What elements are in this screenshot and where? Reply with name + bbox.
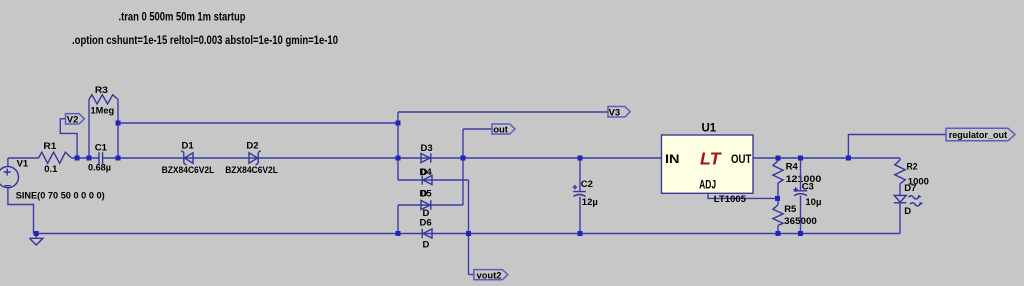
svg-text:R2: R2: [907, 161, 918, 172]
LED D7: [894, 183, 923, 233]
svg-text:LT1005: LT1005: [714, 194, 747, 205]
resistor R1: [39, 141, 72, 175]
zener diode D2: [225, 141, 278, 177]
svg-text:V1: V1: [17, 159, 29, 170]
svg-text:D5: D5: [420, 188, 433, 199]
svg-text:SINE(0 70 50 0 0 0 0): SINE(0 70 50 0 0 0 0): [16, 190, 105, 201]
svg-text:0.68µ: 0.68µ: [88, 163, 111, 174]
net flag V2: [60, 114, 84, 158]
svg-text:0.1: 0.1: [44, 164, 58, 175]
net flag V3: [398, 107, 630, 119]
wire V1 bottom path: [8, 188, 34, 234]
svg-text:IN: IN: [665, 154, 680, 166]
svg-text:out: out: [493, 124, 509, 135]
svg-text:R1: R1: [43, 141, 57, 152]
wire bridge right vertical vout2: [468, 180, 470, 275]
capacitor C3: [793, 158, 821, 234]
voltage source V1: [0, 159, 105, 202]
resistor R3: [89, 85, 118, 158]
wire R3 junction to bridge: [118, 122, 398, 124]
svg-text:C2: C2: [581, 179, 593, 190]
svg-text:V2: V2: [67, 115, 79, 126]
svg-text:.option cshunt=1e-15 reltol=0.: .option cshunt=1e-15 reltol=0.003 abstol…: [72, 33, 338, 47]
diode D6: [420, 218, 433, 251]
resistor R4: [773, 158, 821, 198]
svg-text:regulator_out: regulator_out: [949, 130, 1008, 141]
svg-text:D6: D6: [420, 218, 432, 229]
wire bridge right vertical out: [462, 129, 464, 205]
svg-text:R4: R4: [786, 161, 799, 172]
svg-text:D: D: [423, 239, 430, 250]
capacitor C1: [88, 142, 111, 173]
svg-text:.tran 0 500m 50m 1m startup: .tran 0 500m 50m 1m startup: [119, 9, 246, 23]
svg-text:R3: R3: [95, 85, 108, 96]
net flag vout2: [469, 270, 508, 282]
svg-text:OUT: OUT: [731, 154, 751, 166]
svg-text:D1: D1: [182, 141, 195, 152]
net flag out: [463, 124, 515, 135]
svg-text:C3: C3: [802, 182, 814, 193]
wire V1 top lead: [7, 158, 9, 167]
svg-text:LT: LT: [700, 149, 722, 169]
capacitor C2: [573, 158, 598, 234]
diode D4: [420, 167, 433, 200]
diode D3: [421, 143, 433, 178]
svg-text:R5: R5: [784, 204, 797, 215]
wire D4 row: [398, 179, 469, 181]
svg-text:D3: D3: [421, 143, 433, 154]
svg-text:ADJ: ADJ: [699, 180, 716, 192]
zener diode D1: [162, 141, 215, 177]
svg-text:BZX84C6V2L: BZX84C6V2L: [162, 165, 215, 176]
wire bridge left vertical lower: [397, 205, 399, 234]
svg-text:BZX84C6V2L: BZX84C6V2L: [225, 165, 278, 176]
svg-text:V3: V3: [609, 107, 621, 118]
net flag regulator_out: [848, 128, 1015, 158]
svg-text:10µ: 10µ: [805, 197, 821, 208]
wire D5 row: [398, 204, 463, 206]
svg-text:C1: C1: [95, 142, 108, 153]
svg-text:D2: D2: [246, 141, 258, 152]
ground: [29, 234, 43, 246]
diode D5: [420, 188, 433, 219]
svg-text:1Meg: 1Meg: [91, 105, 115, 116]
resistor R5: [773, 198, 817, 233]
regulator U1: [662, 122, 754, 193]
wire main top rail: [8, 157, 900, 159]
wire bottom rail: [34, 233, 901, 235]
wire ADJ pin: [708, 193, 778, 198]
resistor R2: [895, 158, 929, 195]
svg-text:U1: U1: [702, 122, 717, 134]
svg-text:vout2: vout2: [477, 271, 502, 282]
svg-text:D4: D4: [420, 167, 433, 178]
svg-text:D7: D7: [904, 183, 916, 194]
wire bridge left vertical upper: [397, 112, 399, 180]
svg-text:D: D: [904, 206, 911, 217]
svg-text:12µ: 12µ: [582, 197, 598, 208]
